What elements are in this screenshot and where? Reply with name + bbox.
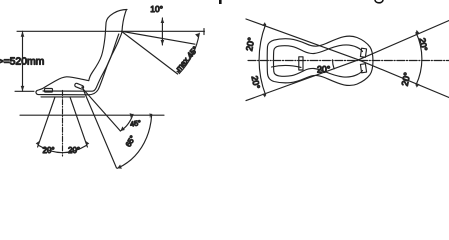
shoulder bracket hole bbox=[81, 86, 83, 88]
seat backrest inner line bbox=[43, 34, 119, 91]
520 bottom extension tick bbox=[15, 90, 34, 92]
svg-text:20°: 20° bbox=[417, 37, 429, 52]
lap fan left 20 line bbox=[38, 97, 55, 147]
right fan arc bbox=[416, 33, 422, 86]
arrowhead 10dim top bbox=[161, 18, 165, 23]
10 deg dimension vertical line bbox=[161, 18, 163, 45]
svg-text:45°: 45° bbox=[130, 118, 142, 128]
left fan lower 20 line bbox=[246, 60, 359, 101]
svg-text:20°: 20° bbox=[43, 146, 55, 155]
arrowhead left arc bottom bbox=[262, 93, 266, 97]
svg-text:max.45°: max.45° bbox=[174, 45, 200, 73]
shoulder 45 line bbox=[84, 90, 121, 132]
arrowhead right arc bottom bbox=[415, 83, 419, 88]
seat shell outline bbox=[36, 10, 127, 95]
top view inner contour bbox=[274, 45, 363, 77]
arrowhead 45 arc bottom bbox=[120, 126, 124, 131]
svg-text:>=520mm: >=520mm bbox=[0, 57, 44, 68]
arrowhead lap arc left bbox=[36, 141, 40, 146]
svg-text:20°: 20° bbox=[250, 75, 262, 90]
left fan arc bbox=[259, 25, 266, 96]
65 arc bbox=[117, 114, 151, 168]
center small rect on axis bbox=[299, 57, 303, 70]
arrowhead 10dim bottom bbox=[161, 40, 165, 45]
dimension 520mm vertical line bbox=[22, 31, 24, 91]
svg-text:20°: 20° bbox=[317, 64, 330, 74]
top view seat outer outline bbox=[267, 36, 373, 85]
right fan lower line bbox=[359, 60, 449, 98]
seat pan lower rail line bbox=[41, 96, 85, 98]
tick at right end of top line bbox=[203, 29, 205, 35]
cropped digit-3 bottom glyph top bbox=[375, 0, 383, 3]
shoulder bracket slanted bbox=[74, 83, 84, 90]
cropped descender glyph top bbox=[219, 0, 222, 4]
center dash-dot axis bbox=[248, 60, 449, 62]
arrowhead left arc top bbox=[262, 22, 266, 26]
arrowhead max45 arc bottom bbox=[176, 69, 180, 73]
lower horizontal reference line bbox=[20, 114, 164, 116]
shoulder 65 line bbox=[83, 89, 117, 168]
svg-text:20°: 20° bbox=[400, 71, 413, 87]
arrowhead 45 arc top bbox=[130, 113, 133, 118]
center 20 small arc bbox=[332, 60, 334, 69]
arrowhead right arc top bbox=[415, 30, 419, 35]
lap fan arc bbox=[39, 146, 86, 153]
10 deg line bbox=[122, 31, 196, 44]
top horizontal reference line bbox=[17, 30, 205, 32]
arrowhead max45 arc top bbox=[195, 33, 199, 37]
svg-text:20°: 20° bbox=[244, 36, 256, 52]
lap fan centerline dash-dot bbox=[62, 91, 64, 157]
svg-text:65°: 65° bbox=[124, 134, 138, 148]
svg-text:20°: 20° bbox=[68, 146, 80, 155]
lap bracket left rectangle bbox=[45, 89, 53, 93]
right slot upper bbox=[360, 48, 366, 57]
left fan upper 20 line bbox=[246, 19, 359, 60]
lap fan right 20 line bbox=[70, 97, 87, 147]
arrowhead lap arc right bbox=[86, 141, 90, 146]
max45 arc bbox=[179, 33, 199, 73]
45 deg shoulder line bbox=[122, 31, 178, 74]
pan front lip line bbox=[272, 65, 302, 67]
45 arc bbox=[120, 114, 133, 131]
arrowhead 65 arc bottom bbox=[117, 165, 122, 169]
right fan upper line bbox=[359, 21, 449, 60]
svg-text:10°: 10° bbox=[150, 4, 163, 14]
arrowhead 520 bottom bbox=[21, 86, 25, 91]
right slot lower bbox=[360, 64, 366, 73]
arrowhead 520 top bbox=[21, 31, 25, 36]
arrowhead 65 arc top bbox=[150, 113, 152, 118]
